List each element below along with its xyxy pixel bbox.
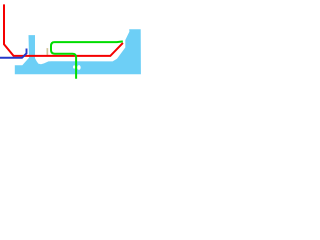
tan stub line — [47, 48, 49, 55]
white notch in water left of green line — [73, 65, 76, 68]
blue line — [0, 49, 27, 58]
red line — [4, 4, 123, 56]
transit map — [0, 0, 160, 160]
green line — [51, 41, 123, 78]
water: river + harbour — [15, 29, 141, 74]
white notch in water right of green line — [77, 65, 81, 70]
